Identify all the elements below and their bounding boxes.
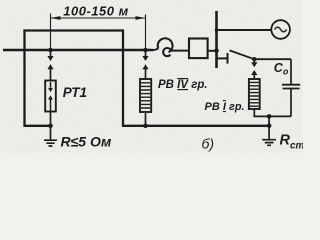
dimension extension line left (50, 14, 52, 51)
wire: bus to generator (217, 29, 272, 31)
spark gap of PB I (253, 61, 255, 63)
wire: sleeve to box (170, 50, 190, 52)
wire: cable sheath loop (protected cable section) (25, 31, 270, 126)
svg-text:б): б) (202, 136, 215, 152)
box (series element) (189, 39, 208, 59)
disconnector: stub from bus (217, 57, 228, 59)
wire: PB IV down lead (145, 112, 147, 126)
cable end sleeve symbol (151, 49, 158, 51)
node: blade hinge (252, 57, 256, 61)
node: bus / incoming line (214, 49, 219, 54)
wire: PT1 down lead to earth (50, 112, 52, 140)
node: station earth junction (267, 124, 272, 129)
dimension line 100-150 m (51, 17, 146, 19)
node: bus / generator feeder (215, 28, 219, 32)
internal gap of PT1 (50, 82, 52, 88)
ground (station earth Rst) (262, 140, 276, 146)
svg-text:РВ I гр.: РВ I гр. (205, 101, 245, 113)
node: tap of PT1 on line (48, 48, 53, 53)
node: junction of cable sheath and PT1 earth (48, 124, 53, 129)
capacitor Co bottom lead (290, 89, 292, 117)
svg-text:РВ IV гр.: РВ IV гр. (158, 79, 208, 91)
node: tap of PB IV on line (143, 48, 148, 53)
wire: hinge to capacitor branch (254, 58, 291, 60)
spark gap of PT1 (50, 52, 52, 57)
station bus (vertical) (215, 11, 218, 68)
arrester PT1 (tube arrester) body (45, 81, 56, 112)
svg-text:РТ1: РТ1 (63, 85, 87, 100)
wire: main overhead line / bus run at y=50 (3, 49, 153, 51)
node: arrester/capacitor earth bus (267, 114, 272, 119)
spark gap of PB IV (145, 52, 147, 57)
svg-text:R≤5 Ом: R≤5 Ом (61, 134, 113, 150)
wire: PB I to earth node (254, 109, 291, 116)
arrester PB IV gr. body (valve arrester, hatched) (140, 79, 151, 112)
wire: down to station ground (268, 116, 270, 139)
dimension extension line right (145, 15, 147, 51)
capacitor Co plates (282, 84, 300, 86)
node: PB IV earth junction (143, 124, 148, 129)
generator G (AC source) (271, 20, 290, 39)
disconnector blade (230, 50, 255, 59)
svg-text:100-150 м: 100-150 м (63, 4, 128, 19)
capacitor Co top lead (290, 59, 292, 84)
arrester PB I gr. body (valve arrester, hatched) (249, 79, 260, 109)
disconnector fixed contact bar (227, 53, 229, 64)
wire: box to station bus (208, 50, 217, 52)
ground (PT1 earth, R<=5 Ohm) (44, 140, 57, 146)
